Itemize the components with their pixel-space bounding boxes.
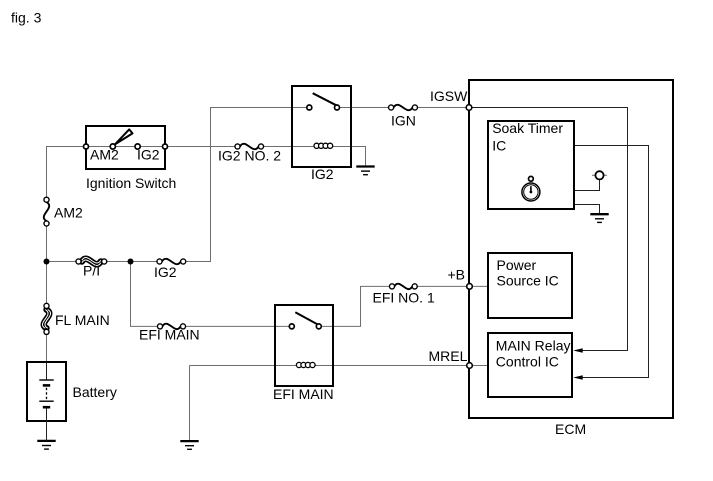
wire: Soak Timer output to ECM ground <box>574 205 600 215</box>
svg-text:MREL: MREL <box>429 348 468 364</box>
wire: junction A down to FL MAIN fusible link <box>46 262 48 306</box>
svg-text:Source IC: Source IC <box>497 273 559 289</box>
MAIN Relay Control IC box <box>488 333 572 397</box>
ground G4 inside ECM <box>590 214 608 222</box>
svg-text:IG2: IG2 <box>137 147 160 163</box>
wire: ignition switch internal AM2-IG2 <box>86 146 165 148</box>
ignition switch lever <box>115 129 133 144</box>
wire: ignition switch AM2 left and down to AM2 fuse <box>47 147 87 200</box>
svg-text:IC: IC <box>492 137 506 153</box>
node IGSW <box>466 105 472 111</box>
fuse AM2 (vertical) <box>44 202 49 221</box>
svg-text:AM2: AM2 <box>54 205 83 221</box>
svg-text:EFI MAIN: EFI MAIN <box>139 327 200 343</box>
wire: tick through terminal circle <box>592 174 607 176</box>
svg-text:IG2: IG2 <box>311 166 334 182</box>
wire: IG2 NO. 2 fuse through IG2 relay coil to ground <box>261 147 366 167</box>
svg-text:Power: Power <box>497 257 537 273</box>
wire: IGN fuse to IGSW node <box>415 107 469 109</box>
svg-text:fig. 3: fig. 3 <box>11 10 42 26</box>
ground G3 right of IG2 relay <box>356 167 374 175</box>
svg-text:Control IC: Control IC <box>496 354 559 370</box>
svg-text:EFI MAIN: EFI MAIN <box>273 386 334 402</box>
wire: P/I fusible link to junction B <box>104 261 130 263</box>
svg-text:Battery: Battery <box>73 384 117 400</box>
wire: IG2 relay switch internal <box>292 107 351 109</box>
wire: EFI NO. 1 fuse through +B node to Power Source IC <box>415 285 488 287</box>
arrowhead into MAIN Relay Control IC upper <box>573 348 583 352</box>
IG2 relay coil <box>314 143 333 148</box>
EFI MAIN relay box <box>275 305 333 386</box>
EFI MAIN relay blade <box>295 312 318 324</box>
wire: Soak Timer output down to MAIN Relay Control IC <box>574 146 649 378</box>
wire: Soak Timer output to terminal circle <box>574 180 600 191</box>
stopwatch icon <box>522 176 540 201</box>
arrowhead into MAIN Relay Control IC lower <box>573 375 583 379</box>
svg-text:IGN: IGN <box>391 113 416 129</box>
EFI MAIN relay coil <box>296 362 315 367</box>
svg-text:Ignition Switch: Ignition Switch <box>86 175 176 191</box>
svg-text:+B: +B <box>448 267 466 283</box>
Soak Timer IC box <box>488 121 574 209</box>
ignition switch terminal circles <box>84 144 89 149</box>
svg-text:ECM: ECM <box>555 421 586 437</box>
fuse IGN <box>394 105 413 110</box>
IG2 relay contact circles <box>307 105 312 110</box>
Power Source IC box <box>488 253 572 318</box>
svg-text:FL MAIN: FL MAIN <box>55 312 110 328</box>
ground G2 below EFI MAIN coil line <box>180 441 198 449</box>
wire: junction A to P/I fusible link <box>47 261 79 263</box>
wire: EFI MAIN relay switch internal <box>275 325 333 327</box>
ignition switch box <box>86 126 165 169</box>
battery plates <box>39 380 53 407</box>
wire: junction B down to EFI MAIN fuse <box>131 262 161 327</box>
svg-text:IGSW: IGSW <box>430 88 468 104</box>
wire: AM2 fuse to junction A <box>46 224 48 262</box>
svg-text:Soak Timer: Soak Timer <box>492 120 563 136</box>
svg-text:EFI NO. 1: EFI NO. 1 <box>373 290 435 306</box>
fusible link FL MAIN (vertical) <box>44 310 50 329</box>
junction A dot <box>44 259 50 265</box>
battery internal wires <box>46 362 48 441</box>
wire: IG2 fuse up to IG2 relay switch <box>183 108 292 262</box>
wire: FL MAIN fusible link to battery <box>46 332 48 362</box>
wire: IGSW line into ECM down to MAIN Relay Control IC <box>469 108 628 351</box>
svg-text:IG2 NO. 2: IG2 NO. 2 <box>218 148 281 164</box>
wire: ignition switch IG2 to IG2 NO. 2 fuse <box>165 146 238 148</box>
svg-text:IG2: IG2 <box>154 264 177 280</box>
fuse EFI NO. 1 <box>394 284 412 289</box>
fusible link P/I (horizontal) <box>82 259 101 264</box>
junction B dot <box>128 259 134 265</box>
wire: EFI MAIN relay switch up to EFI NO. 1 fuse <box>333 286 392 326</box>
battery box <box>27 362 66 421</box>
IG2 relay blade <box>313 93 337 105</box>
wire: MREL row from ground stub through EFI MAIN coil to MAIN Relay Control IC <box>190 365 489 367</box>
EFI MAIN relay contact circles <box>289 324 294 329</box>
IG2 relay box <box>292 86 351 167</box>
ECM box <box>469 80 673 418</box>
terminal circle inside ECM <box>595 171 603 179</box>
fuse EFI MAIN <box>162 324 180 329</box>
wire: IG2 relay to IGN fuse <box>351 107 391 109</box>
wire: EFI MAIN fuse to EFI MAIN relay <box>183 325 275 327</box>
wire: junction B to IG2 fuse <box>131 261 160 263</box>
ground G1 below battery <box>37 441 55 449</box>
wire: EFI MAIN coil ground stub <box>189 366 191 442</box>
svg-text:P/I: P/I <box>83 263 100 279</box>
svg-text:MAIN Relay: MAIN Relay <box>496 338 571 354</box>
fuse IG2 NO. 2 <box>240 144 259 149</box>
node +B <box>467 284 473 290</box>
node MREL <box>467 363 473 369</box>
fuse IG2 <box>162 259 181 264</box>
